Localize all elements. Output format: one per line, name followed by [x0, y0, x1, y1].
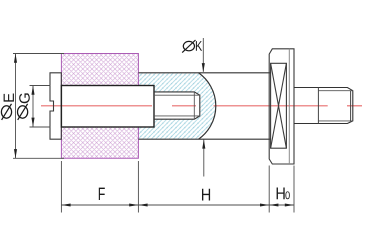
stub (threaded) outline	[154, 92, 200, 119]
dome arc	[199, 73, 216, 139]
left end piece outline	[50, 73, 61, 139]
bottom extension lines	[60, 161, 62, 213]
dimension ØG extension lines	[30, 85, 51, 87]
stud thread start line	[317, 88, 319, 124]
flange outline	[269, 49, 294, 164]
wire: centerline dash 2	[172, 105, 196, 107]
label H	[202, 189, 210, 201]
F arrows	[61, 203, 70, 206]
label F	[99, 188, 105, 200]
H arrows	[138, 203, 147, 206]
rubber block fill (pink crosshatch)	[61, 54, 138, 159]
dimension ØE line	[15, 54, 17, 159]
wire: centerline dash 1	[41, 105, 152, 107]
stub thread end line	[193, 92, 195, 119]
dimension ØK leader top	[202, 38, 204, 72]
stud outline	[294, 88, 353, 124]
stud tip line	[350, 91, 352, 121]
bottom dimension line F H H0	[61, 204, 294, 206]
label ØG	[18, 93, 30, 119]
wire: centerline dash 3	[214, 105, 328, 107]
body outline: top and bottom edges	[139, 72, 271, 74]
label ØE	[1, 94, 14, 120]
flange inner face line	[288, 49, 290, 164]
rubber block border (pink)	[61, 54, 138, 159]
centerline (red)	[41, 105, 362, 107]
H0 arrows	[269, 203, 278, 206]
flange X-box	[271, 63, 287, 148]
body fill (cyan hatch) with dome	[139, 73, 216, 139]
label ØK	[182, 40, 202, 53]
dimension ØG line	[32, 86, 34, 128]
cavity white: stub region	[154, 92, 200, 119]
wire: centerline dash 4	[347, 105, 362, 107]
dimension ØK leader bottom	[203, 140, 205, 177]
stud minor thread lines	[318, 90, 352, 92]
label H0	[277, 188, 285, 200]
dimension ØE extension lines	[13, 53, 64, 55]
left end piece white	[50, 73, 61, 139]
sleeve white	[61, 86, 154, 128]
stub minor thread lines	[155, 94, 200, 96]
sleeve outline	[61, 86, 154, 128]
